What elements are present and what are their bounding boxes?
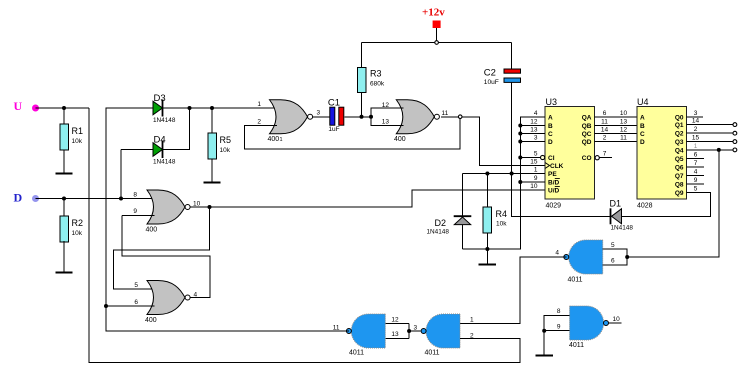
svg-text:14: 14 (601, 126, 609, 133)
junction R5 top (210, 106, 214, 110)
wire PE rail (463, 173, 546, 175)
resistor R1 (60, 108, 83, 174)
wire gate A output net: vertical x=106 to D3 anode, NOR4 in6, bottom rail (106, 108, 346, 331)
resistor R2 (60, 199, 83, 273)
wire U net: input to R1 junction and down-left rail to bottom (36, 108, 520, 363)
ic U4 4028 body (637, 97, 687, 210)
svg-text:10: 10 (620, 110, 628, 117)
svg-text:4029: 4029 (546, 203, 562, 210)
svg-text:4: 4 (194, 292, 198, 299)
svg-text:Q5: Q5 (675, 156, 684, 163)
svg-text:QD: QD (582, 139, 592, 146)
node D input terminal (14, 191, 40, 205)
svg-text:9: 9 (557, 324, 561, 331)
svg-text:10k: 10k (220, 147, 231, 154)
ic U3 pin names (545, 115, 592, 195)
ground below R5 (203, 159, 220, 183)
svg-text:B: B (640, 123, 645, 130)
wire NAND B input 2 from U rail (460, 339, 520, 363)
svg-text:R2: R2 (72, 218, 84, 228)
svg-text:1uF: 1uF (328, 126, 339, 133)
svg-text:B/D: B/D (548, 180, 560, 187)
wire NAND A output to rail (346, 330, 349, 332)
svg-text:U/D: U/D (548, 188, 560, 195)
svg-text:15: 15 (530, 159, 538, 166)
svg-text:3: 3 (317, 110, 321, 117)
diode D4 (153, 135, 176, 166)
junction R3 bottom (360, 115, 364, 119)
svg-text:4: 4 (694, 169, 698, 176)
svg-text:QA: QA (582, 115, 592, 122)
svg-text:4: 4 (534, 110, 538, 117)
junction NAND E input 9 (542, 329, 546, 333)
diode D1 (610, 199, 634, 232)
ground below R1 (55, 150, 72, 174)
pin CI bubble U3 (541, 155, 545, 159)
pin numbers U3 left (530, 110, 538, 190)
junction ground rail (485, 247, 489, 251)
wire D4 cathode up-join (163, 108, 190, 150)
ground below R4 (479, 249, 496, 265)
wire D net: input to NOR gate input 8 (36, 198, 155, 200)
svg-text:1: 1 (470, 317, 474, 324)
svg-text:Q4: Q4 (675, 147, 684, 154)
svg-text:400: 400 (146, 227, 158, 234)
svg-text:14: 14 (692, 118, 700, 125)
svg-text:C: C (640, 131, 645, 138)
svg-text:R4: R4 (496, 209, 508, 219)
junction node NOR2 output (458, 115, 462, 119)
wire U3 left pin stubs and junctions (518, 124, 545, 185)
svg-text:+12v: +12v (422, 7, 445, 19)
nand-gate U5b 4011 (414, 314, 475, 357)
junction D4 anode / D line (119, 197, 123, 201)
resistor R3 (357, 43, 385, 117)
svg-text:4028: 4028 (637, 203, 653, 210)
svg-text:B: B (548, 123, 553, 130)
svg-text:6: 6 (603, 110, 607, 117)
svg-text:4011: 4011 (568, 277, 583, 284)
svg-text:CI: CI (548, 155, 555, 162)
diode D3 (153, 93, 176, 124)
nand-gate U5c 4011 (333, 314, 399, 357)
svg-text:5: 5 (694, 186, 698, 193)
svg-text:3: 3 (414, 325, 418, 332)
wire NOR2 input tie vertical (371, 108, 404, 126)
nor-gate U1b 4001 (382, 100, 449, 143)
svg-text:1: 1 (280, 137, 283, 143)
ic U4 pin names (640, 115, 684, 198)
junction R1 top (62, 106, 66, 110)
svg-text:11: 11 (620, 134, 627, 141)
svg-text:5: 5 (534, 151, 538, 158)
wire C2 bottom to PE rail and D1 anode (512, 83, 611, 217)
svg-text:7: 7 (603, 151, 607, 158)
svg-text:12: 12 (391, 317, 399, 324)
capacitor C2 (484, 43, 521, 87)
svg-text:2: 2 (694, 126, 698, 133)
svg-text:D4: D4 (154, 135, 166, 146)
svg-text:QB: QB (582, 123, 592, 130)
wire NOR3 input 9 (122, 215, 155, 217)
wire D4 anode stub (121, 149, 153, 151)
svg-text:D2: D2 (435, 218, 447, 228)
resistor R4 (483, 174, 507, 250)
wire NOR1 input 2 feedback from NOR2 output (244, 117, 460, 149)
nand-gate U5a 4011 (inverter of Q4) (555, 240, 615, 284)
svg-text:C: C (548, 131, 553, 138)
wire U3 ground bus vertical (A,B,C,D,CI,B/D) (463, 117, 546, 249)
svg-text:D: D (548, 139, 553, 146)
junction NOR2 input tie (369, 115, 373, 119)
svg-text:3: 3 (534, 135, 538, 142)
svg-text:5: 5 (134, 282, 138, 289)
wire NOR1 output to C1 (313, 116, 330, 118)
wire NOR4 input 6 (106, 305, 155, 307)
svg-text:U3: U3 (546, 97, 558, 107)
junction NAND D input tie (625, 255, 629, 259)
wire D3 cathode to NOR1 input 1 (163, 107, 278, 109)
svg-text:2: 2 (603, 134, 607, 141)
svg-text:11: 11 (442, 110, 449, 117)
svg-text:D3: D3 (154, 93, 166, 104)
svg-text:PE: PE (548, 171, 557, 178)
svg-text:10k: 10k (72, 138, 83, 145)
wire D4 anode vertical (120, 150, 122, 199)
svg-text:Q8: Q8 (675, 182, 684, 189)
node U input terminal (14, 99, 40, 113)
wire NAND E inputs grounded (544, 315, 569, 355)
junction node +12v rail (435, 41, 439, 45)
svg-text:11: 11 (333, 325, 340, 332)
wire NAND D output to NAND B input 1 (460, 257, 566, 324)
svg-text:8: 8 (133, 192, 137, 199)
svg-text:Q3: Q3 (675, 139, 684, 146)
wire U4 right pin stubs with numbers (687, 110, 734, 193)
junction R2 top (62, 197, 66, 201)
junction Q4 tap (717, 148, 721, 152)
svg-text:1: 1 (694, 143, 698, 150)
svg-text:5: 5 (611, 242, 615, 249)
wire C1 to NOR2 inputs (345, 116, 372, 118)
junction NOR4 input 6 tap (104, 304, 108, 308)
node output terminals Q1-Q4 (733, 123, 737, 152)
ground below R2 (55, 241, 72, 273)
svg-text:13: 13 (530, 127, 538, 134)
svg-text:8: 8 (557, 308, 561, 315)
svg-text:D1: D1 (610, 199, 622, 209)
svg-text:3: 3 (694, 110, 698, 117)
svg-text:400: 400 (145, 317, 157, 324)
svg-text:2: 2 (257, 119, 261, 126)
svg-text:12: 12 (530, 119, 538, 126)
svg-text:QC: QC (582, 131, 592, 138)
svg-text:10: 10 (613, 316, 621, 323)
svg-text:6: 6 (134, 299, 138, 306)
svg-text:13: 13 (382, 119, 390, 126)
svg-text:13: 13 (620, 118, 628, 125)
svg-text:Q1: Q1 (675, 122, 684, 129)
svg-text:6: 6 (611, 258, 615, 265)
junction C2/PE (510, 172, 514, 176)
svg-text:Q0: Q0 (675, 115, 684, 122)
svg-text:4011: 4011 (569, 342, 584, 349)
svg-text:400: 400 (268, 136, 280, 143)
svg-text:CO: CO (582, 155, 592, 162)
wire +12v rail (362, 42, 512, 44)
svg-text:9: 9 (534, 175, 538, 182)
wire Q4 to NAND D inputs (627, 150, 719, 257)
nor-gate U2b 4001 (latch) (134, 281, 197, 325)
svg-text:U: U (14, 99, 23, 113)
svg-text:Q2: Q2 (675, 131, 684, 138)
nor-gate U1a 4001 (257, 100, 320, 143)
svg-text:1N4148: 1N4148 (153, 117, 176, 124)
svg-text:1N4148: 1N4148 (611, 225, 634, 232)
wire latch: NOR4 out to NOR3 in9 (122, 216, 210, 298)
svg-text:1N4148: 1N4148 (427, 229, 450, 236)
svg-text:Q6: Q6 (675, 165, 684, 172)
svg-text:4: 4 (555, 250, 559, 257)
svg-text:10uF: 10uF (484, 79, 499, 86)
svg-text:4011: 4011 (425, 350, 440, 357)
nand-gate U5d 4011 (unused) (557, 306, 620, 349)
nor-gate U2a 4001 (latch) (133, 190, 200, 234)
svg-text:1N4148: 1N4148 (153, 158, 176, 165)
svg-text:U4: U4 (637, 97, 649, 107)
wire Q9 to D1 cathode (622, 193, 711, 217)
ic U3 4029 body (545, 97, 595, 210)
svg-text:6: 6 (694, 152, 698, 159)
svg-text:680k: 680k (370, 81, 385, 88)
junction NAND A input tie (407, 329, 411, 333)
svg-text:R5: R5 (220, 135, 232, 145)
svg-text:9: 9 (133, 208, 137, 215)
wire latch: NOR3 out to NOR4 in5 (114, 207, 210, 289)
svg-text:15: 15 (692, 135, 700, 142)
svg-text:10k: 10k (496, 221, 507, 228)
svg-text:11: 11 (601, 118, 608, 125)
svg-text:12: 12 (620, 126, 628, 133)
ground NAND E (536, 355, 554, 357)
junction R4 top (485, 172, 489, 176)
svg-text:400: 400 (394, 136, 406, 143)
capacitor C1 (328, 98, 344, 134)
junction D4 cathode join (188, 106, 192, 110)
diode D2 (427, 174, 472, 250)
svg-text:D: D (14, 191, 23, 205)
svg-text:A: A (548, 115, 553, 122)
wire NOR3 output to U3 U/D (190, 190, 545, 207)
pin CO U3 (595, 151, 612, 160)
svg-text:CLK: CLK (550, 163, 564, 170)
svg-text:R3: R3 (370, 69, 382, 79)
power +12v (422, 7, 445, 43)
svg-text:9: 9 (694, 177, 698, 184)
svg-text:A: A (640, 115, 645, 122)
svg-text:C2: C2 (484, 67, 496, 78)
svg-text:1: 1 (534, 167, 538, 174)
junction NOR3 output (208, 205, 212, 209)
svg-text:Q7: Q7 (675, 173, 684, 180)
svg-text:R1: R1 (72, 126, 84, 136)
svg-text:1: 1 (257, 101, 261, 108)
wire NAND E output stub (609, 322, 622, 324)
svg-text:7: 7 (694, 160, 698, 167)
svg-text:C1: C1 (328, 98, 340, 109)
svg-text:4011: 4011 (349, 350, 364, 357)
wire NAND B output to NAND A inputs (385, 324, 420, 339)
resistor R5 (208, 108, 231, 183)
wire NOR2 output to U3 CLK (441, 117, 545, 166)
svg-text:10k: 10k (72, 230, 83, 237)
svg-text:13: 13 (391, 331, 399, 338)
svg-text:10: 10 (193, 201, 201, 208)
svg-text:Q9: Q9 (675, 190, 684, 197)
svg-text:D: D (640, 139, 645, 146)
wire U3 QA-QD to U4 A-D with pin numbers (595, 110, 638, 141)
wire NAND D inputs tie (603, 249, 628, 265)
svg-text:10: 10 (530, 183, 538, 190)
